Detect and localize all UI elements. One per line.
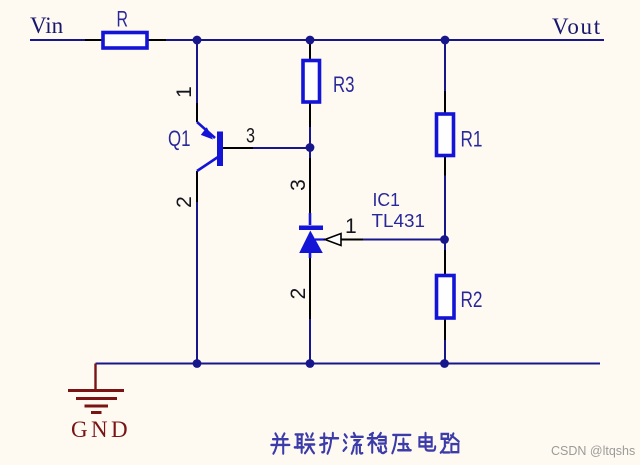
svg-text:R2: R2: [461, 287, 483, 312]
svg-text:R3: R3: [333, 72, 355, 97]
svg-text:1: 1: [345, 215, 357, 238]
svg-text:GND: GND: [71, 417, 131, 442]
svg-text:R: R: [117, 7, 129, 32]
svg-text:IC1: IC1: [373, 189, 401, 210]
svg-text:CSDN @ltqshs: CSDN @ltqshs: [551, 444, 635, 458]
svg-text:3: 3: [287, 179, 310, 191]
svg-text:Vin: Vin: [30, 13, 64, 38]
svg-text:1: 1: [173, 86, 196, 98]
svg-text:R1: R1: [461, 127, 483, 152]
svg-text:Q1: Q1: [168, 126, 191, 151]
svg-text:2: 2: [173, 196, 196, 208]
svg-text:TL431: TL431: [372, 210, 426, 231]
svg-text:3: 3: [246, 125, 255, 148]
svg-text:Vout: Vout: [552, 14, 602, 39]
svg-text:2: 2: [287, 288, 310, 300]
